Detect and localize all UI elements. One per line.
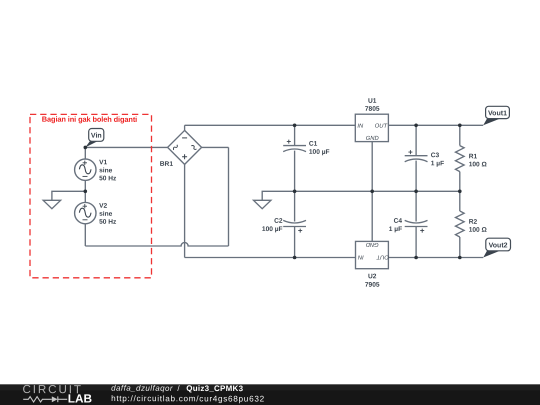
annotation box (red dashed) — [30, 114, 152, 277]
wire V2 bottom down — [84, 224, 86, 246]
svg-text:BR1: BR1 — [160, 161, 174, 168]
wire AC return vertical up — [228, 147, 230, 246]
label C4 name/value — [389, 218, 403, 233]
svg-text:100 µF: 100 µF — [309, 149, 330, 156]
svg-text:7905: 7905 — [365, 282, 380, 289]
wire U2 GND stem — [371, 191, 373, 241]
svg-text:IN: IN — [357, 124, 364, 130]
wire C3 bottom stem — [415, 161, 417, 192]
wire U1 GND stem — [371, 142, 373, 192]
junction R2 bottom rail — [458, 256, 462, 260]
label U1 name/value — [365, 98, 380, 113]
resistor R1 — [455, 146, 464, 172]
label V2 name/value — [99, 203, 117, 226]
label R1 name/value — [469, 153, 488, 168]
svg-text:LAB: LAB — [68, 391, 92, 405]
node flag Vout1 — [483, 106, 509, 125]
junction C3/C4 mid rail — [414, 190, 418, 194]
junction node V1/V2 mid — [84, 190, 88, 194]
voltage source V1 — [75, 159, 96, 180]
wire AC return horizontal with hop over bridge stem — [85, 243, 228, 246]
svg-text:U2: U2 — [368, 273, 377, 280]
wire R1 bottom stem — [459, 172, 461, 192]
ground symbol GND1 (left of V1/V2 node) — [43, 200, 60, 208]
bridge rectifier BR1 — [168, 130, 202, 164]
wire top rail left (bridge to U1 IN) — [185, 124, 356, 126]
svg-text:1 µF: 1 µF — [431, 160, 444, 167]
svg-text:100 Ω: 100 Ω — [469, 161, 488, 168]
svg-text:7805: 7805 — [365, 106, 380, 113]
wire C4 bottom stem — [415, 227, 417, 258]
label R2 name/value — [469, 219, 488, 234]
wire AC return to bridge right pin — [202, 146, 229, 148]
svg-text:C3: C3 — [431, 152, 440, 159]
wire Vin vertical to V1 top — [84, 147, 86, 159]
wire C1 bottom stem — [294, 151, 296, 192]
wire R2 top stem — [459, 191, 461, 211]
label C3 name/value — [431, 152, 444, 167]
wire R2 bottom stem — [459, 237, 461, 258]
wire C1 top stem — [294, 125, 296, 145]
svg-text:GND: GND — [366, 136, 379, 142]
wire C2 bottom stem — [294, 227, 296, 258]
footer bar — [0, 384, 540, 405]
svg-text:IN: IN — [357, 253, 364, 259]
label C1 name/value — [309, 141, 330, 156]
svg-text:R2: R2 — [469, 219, 478, 226]
resistor R2 — [455, 211, 464, 237]
svg-text:100 µF: 100 µF — [262, 226, 283, 233]
svg-text:Vin: Vin — [91, 133, 102, 140]
capacitor C2 (polarized, mirrored) — [283, 220, 306, 232]
wire V1 bottom to V2 top — [84, 180, 86, 202]
label V1 name/value — [99, 159, 117, 182]
svg-text:U1: U1 — [368, 98, 377, 105]
junction node Vin — [84, 146, 88, 150]
svg-text:50 Hz: 50 Hz — [99, 175, 117, 182]
capacitor C1 (polarized) — [283, 140, 306, 152]
wire bridge top stem — [184, 125, 186, 130]
junction U GND mid rail — [370, 190, 374, 194]
svg-text:100 Ω: 100 Ω — [469, 227, 488, 234]
capacitor C3 (polarized) — [405, 150, 428, 162]
wire bottom rail right (U2 OUT to Vout2) — [388, 257, 483, 259]
capacitor C4 (polarized, mirrored) — [405, 220, 428, 232]
wire C3 top stem — [415, 125, 417, 155]
svg-text:Vout2: Vout2 — [489, 242, 508, 249]
junction R1 top rail — [458, 124, 462, 128]
wire top rail right (U1 OUT to Vout1) — [388, 124, 483, 126]
svg-text:Bagian ini gak boleh diganti: Bagian ini gak boleh diganti — [42, 115, 137, 124]
label C2 name/value — [262, 218, 283, 233]
wire Vin node to bridge left AC pin — [85, 146, 167, 148]
regulator U1 7805 — [355, 114, 388, 142]
wire ground tap from V1/V2 node — [52, 191, 85, 200]
wire C2 top stem — [294, 191, 296, 221]
wire R1 top stem — [459, 125, 461, 145]
junction C1 top rail — [293, 124, 297, 128]
regulator U2 7905 (rotated 180) — [356, 241, 389, 269]
label U2 name/value — [365, 273, 380, 288]
node flag Vin — [85, 129, 103, 148]
footer logo resistor-diode glyph — [23, 396, 67, 402]
svg-text:C1: C1 — [309, 141, 318, 148]
svg-text:daffa_dzulfaqor / Quiz3_CPMK3: daffa_dzulfaqor / Quiz3_CPMK3 — [111, 384, 244, 393]
ground symbol GND2 (mid rail) — [254, 200, 271, 208]
voltage source V2 — [75, 202, 96, 223]
svg-text:OUT: OUT — [376, 253, 389, 259]
svg-text:GND: GND — [366, 241, 379, 247]
wire mid ground rail — [262, 191, 460, 200]
svg-text:50 Hz: 50 Hz — [99, 219, 117, 226]
node flag Vout2 — [483, 238, 510, 257]
wire bridge bottom stem down — [184, 164, 186, 257]
svg-text:sine: sine — [99, 211, 113, 218]
junction C2 bottom rail — [293, 256, 297, 260]
svg-text:C2: C2 — [274, 218, 283, 225]
junction R1/R2 mid rail — [458, 190, 462, 194]
svg-text:R1: R1 — [469, 153, 478, 160]
svg-text:sine: sine — [99, 167, 113, 174]
wire C4 top stem — [415, 191, 417, 221]
junction C3 top rail — [414, 124, 418, 128]
svg-text:V2: V2 — [99, 203, 107, 210]
svg-text:OUT: OUT — [375, 124, 388, 130]
svg-text:Vout1: Vout1 — [488, 110, 507, 117]
svg-text:C4: C4 — [394, 218, 403, 225]
wire bottom rail left (bridge to U2 IN) — [185, 257, 356, 259]
svg-text:V1: V1 — [99, 159, 107, 166]
svg-text:1 µF: 1 µF — [389, 226, 402, 233]
junction C4 bottom rail — [414, 256, 418, 260]
junction C1/C2 mid rail — [293, 190, 297, 194]
svg-text:http://circuitlab.com/cur4gs68: http://circuitlab.com/cur4gs68pu632 — [111, 394, 265, 404]
